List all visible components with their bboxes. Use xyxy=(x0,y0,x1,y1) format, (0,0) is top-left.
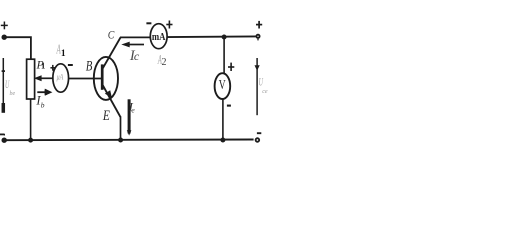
open terminal top-right xyxy=(256,35,259,38)
svg-text:C: C xyxy=(108,28,115,42)
svg-text:U: U xyxy=(259,77,264,90)
svg-text:mA: mA xyxy=(152,32,166,43)
plus sign top-left terminal xyxy=(1,22,8,30)
current arrow Ic xyxy=(121,42,144,48)
minus sign of A2 xyxy=(146,22,151,24)
label Ie xyxy=(128,99,136,114)
wiper arrow (uA meter to P1) xyxy=(34,75,53,81)
base wire A1 to transistor xyxy=(68,78,101,80)
svg-text:ce: ce xyxy=(262,89,268,95)
transistor Q1 circle xyxy=(94,57,118,100)
junction node top of voltmeter xyxy=(222,35,226,39)
tick above bottom-left terminal xyxy=(3,134,5,136)
milliammeter A2 body xyxy=(150,24,167,49)
svg-text:U: U xyxy=(5,79,10,92)
current arrow Ib xyxy=(37,89,52,96)
wire junction to voltmeter top xyxy=(223,37,225,74)
minus sign of voltmeter xyxy=(227,105,231,107)
node top-left terminal xyxy=(2,35,6,39)
open terminal bottom-right xyxy=(256,138,260,142)
svg-text:E: E xyxy=(102,108,110,124)
label A2 xyxy=(157,53,166,68)
current arrow Ie xyxy=(127,99,132,135)
svg-text:μA: μA xyxy=(56,72,63,81)
plus sign of A1 xyxy=(50,65,55,71)
wire top-left horizontal to P1 xyxy=(6,37,31,59)
wire P1 bottom to rail xyxy=(30,99,32,140)
junction node bottom of voltmeter xyxy=(221,138,225,142)
label A1 xyxy=(56,42,66,59)
emitter wire down to rail xyxy=(120,116,122,140)
potentiometer P1 body xyxy=(27,59,35,99)
microammeter A1 body xyxy=(53,64,69,92)
svg-text:b: b xyxy=(41,101,45,110)
emitter lead diagonal xyxy=(103,85,121,117)
collector wire to mA meter xyxy=(120,36,151,38)
svg-text:1: 1 xyxy=(41,61,45,71)
svg-text:V: V xyxy=(219,78,226,93)
transistor base bar xyxy=(101,64,104,89)
svg-text:be: be xyxy=(10,91,16,97)
junction node emitter at rail xyxy=(119,138,123,142)
label Ic xyxy=(129,48,140,64)
svg-text:B: B xyxy=(86,58,93,74)
label Uce xyxy=(259,77,268,95)
svg-text:2: 2 xyxy=(162,57,167,68)
minus sign of A1 xyxy=(68,64,73,66)
voltage arrow Uce xyxy=(255,58,260,115)
label Ube xyxy=(5,79,16,97)
voltage arrow Ube xyxy=(2,58,5,113)
label Ib xyxy=(35,93,44,109)
node bottom-left terminal xyxy=(2,138,6,142)
plus sign top-right terminal xyxy=(256,21,262,29)
plus sign of A2 xyxy=(166,21,172,29)
bottom rail xyxy=(6,139,254,142)
wire voltmeter bottom to rail xyxy=(222,99,224,140)
collector lead diagonal xyxy=(103,37,121,68)
plus sign of voltmeter xyxy=(228,63,234,71)
svg-text:c: c xyxy=(134,49,140,63)
minus sign bottom-left xyxy=(0,133,4,135)
minus sign bottom-right xyxy=(257,132,261,134)
junction node P1 bottom at rail xyxy=(29,138,33,142)
voltmeter V body xyxy=(215,73,231,99)
svg-text:1: 1 xyxy=(61,49,66,59)
top rail mA to right terminal xyxy=(167,35,256,38)
emitter arrowhead xyxy=(105,90,112,98)
label P1 xyxy=(36,57,46,71)
